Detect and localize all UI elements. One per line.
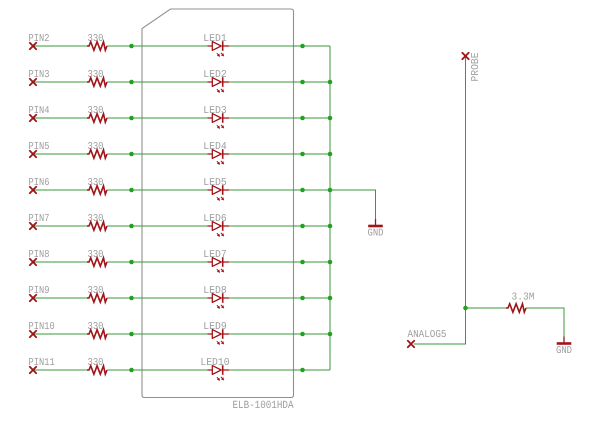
junction (bus) xyxy=(328,80,333,85)
junction (pin PIN11 to U1) xyxy=(129,368,134,373)
wire xyxy=(33,45,87,47)
svg-text:PIN11: PIN11 xyxy=(29,357,55,369)
junction (U1 right pin) xyxy=(300,44,305,49)
wire xyxy=(33,297,87,299)
resistor 330 (row 4) xyxy=(87,141,107,158)
junction (U1 right pin) xyxy=(300,260,305,265)
junction (pin PIN2 to U1) xyxy=(129,44,134,49)
svg-text:PIN9: PIN9 xyxy=(29,285,50,297)
LED LED6 xyxy=(203,213,229,237)
wire xyxy=(33,369,87,371)
LED LED7 xyxy=(203,249,229,273)
wire xyxy=(229,225,330,227)
svg-text:PIN6: PIN6 xyxy=(29,177,50,189)
junction (pin PIN3 to U1) xyxy=(129,80,134,85)
resistor 330 (row 5) xyxy=(87,177,107,194)
LED LED9 xyxy=(203,321,229,345)
svg-text:ELB-1001HDA: ELB-1001HDA xyxy=(233,400,294,412)
wire xyxy=(229,333,330,335)
wire xyxy=(107,261,208,263)
junction (U1 right pin) xyxy=(300,188,305,193)
junction (bus) xyxy=(328,332,333,337)
wire xyxy=(229,81,330,83)
wire xyxy=(107,297,208,299)
junction (U1 right pin) xyxy=(300,332,305,337)
resistor 330 (row 7) xyxy=(87,249,107,266)
resistor 330 (row 1) xyxy=(87,33,107,50)
LED LED2 xyxy=(203,69,229,93)
node PIN2 xyxy=(29,33,50,49)
node ANALOG5 xyxy=(408,329,447,347)
IC U1 ELB-1001HDA outline xyxy=(142,9,294,398)
resistor 330 (row 9) xyxy=(87,321,107,338)
junction (bus) xyxy=(328,260,333,265)
node PIN10 xyxy=(29,321,55,337)
resistor 330 (row 6) xyxy=(87,213,107,230)
svg-text:GND: GND xyxy=(556,345,572,357)
junction (pin PIN5 to U1) xyxy=(129,152,134,157)
junction (bus) xyxy=(328,116,333,121)
wire xyxy=(229,261,330,263)
svg-text:PIN2: PIN2 xyxy=(29,33,50,45)
junction (pin PIN4 to U1) xyxy=(129,116,134,121)
wire xyxy=(107,189,208,191)
wire xyxy=(229,297,330,299)
LED LED10 xyxy=(200,357,229,381)
wire (bus to GND) xyxy=(330,190,376,219)
junction (bus) xyxy=(328,224,333,229)
svg-text:3.3M: 3.3M xyxy=(512,291,535,303)
wire xyxy=(229,45,330,47)
resistor 330 (row 3) xyxy=(87,105,107,122)
junction (pin PIN9 to U1) xyxy=(129,296,134,301)
junction (U1 right pin) xyxy=(300,116,305,121)
LED LED3 xyxy=(203,105,229,129)
wire xyxy=(229,117,330,119)
junction (bus) xyxy=(328,188,333,193)
wire (to ANALOG5) xyxy=(414,308,466,344)
wire xyxy=(229,369,330,371)
svg-text:PIN7: PIN7 xyxy=(29,213,50,225)
junction (U1 right pin) xyxy=(300,224,305,229)
wire xyxy=(107,117,208,119)
ground GND (left) xyxy=(368,219,384,240)
junction (bus) xyxy=(328,152,333,157)
node PIN8 xyxy=(29,249,50,265)
node PIN7 xyxy=(29,213,50,229)
svg-text:PIN8: PIN8 xyxy=(29,249,50,261)
wire (probe vertical) xyxy=(465,56,467,308)
LED LED5 xyxy=(203,177,229,201)
junction (pin PIN10 to U1) xyxy=(129,332,134,337)
wire xyxy=(33,333,87,335)
wire (cathode bus) xyxy=(329,46,331,370)
node PIN3 xyxy=(29,69,50,85)
junction (probe node) xyxy=(463,306,468,311)
LED LED1 xyxy=(203,33,229,57)
svg-text:GND: GND xyxy=(368,228,384,240)
svg-text:PIN10: PIN10 xyxy=(29,321,55,333)
LED LED4 xyxy=(203,141,229,165)
wire xyxy=(107,225,208,227)
resistor 330 (row 8) xyxy=(87,285,107,302)
junction (U1 right pin) xyxy=(300,80,305,85)
node PIN4 xyxy=(29,105,50,121)
wire xyxy=(466,307,507,309)
node PIN5 xyxy=(29,141,50,157)
wire xyxy=(33,189,87,191)
junction (pin PIN6 to U1) xyxy=(129,188,134,193)
svg-text:ANALOG5: ANALOG5 xyxy=(408,329,447,341)
svg-text:PIN5: PIN5 xyxy=(29,141,50,153)
wire xyxy=(107,45,208,47)
wire xyxy=(107,333,208,335)
wire xyxy=(33,261,87,263)
junction (bus) xyxy=(328,296,333,301)
node PIN11 xyxy=(29,357,55,373)
junction (pin PIN8 to U1) xyxy=(129,260,134,265)
node PROBE xyxy=(462,53,482,82)
wire xyxy=(107,153,208,155)
wire xyxy=(33,117,87,119)
wire xyxy=(33,153,87,155)
junction (U1 right pin) xyxy=(300,152,305,157)
resistor 330 (row 10) xyxy=(87,357,107,374)
wire xyxy=(107,369,208,371)
svg-text:PIN3: PIN3 xyxy=(29,69,50,81)
wire xyxy=(229,153,330,155)
resistor 3.3M xyxy=(506,291,535,312)
LED LED8 xyxy=(203,285,229,309)
junction (U1 right pin) xyxy=(300,368,305,373)
junction (U1 right pin) xyxy=(300,296,305,301)
node PIN9 xyxy=(29,285,50,301)
junction (pin PIN7 to U1) xyxy=(129,224,134,229)
node PIN6 xyxy=(29,177,50,193)
svg-text:PIN4: PIN4 xyxy=(29,105,50,117)
wire xyxy=(526,308,564,337)
resistor 330 (row 2) xyxy=(87,69,107,86)
wire xyxy=(33,225,87,227)
ground GND (right) xyxy=(556,337,572,358)
wire xyxy=(33,81,87,83)
wire xyxy=(229,189,330,191)
svg-text:PROBE: PROBE xyxy=(470,53,482,82)
wire xyxy=(107,81,208,83)
